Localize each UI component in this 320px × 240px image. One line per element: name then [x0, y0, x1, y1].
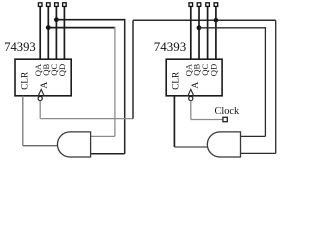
wire QD stem (U2): [215, 7, 217, 59]
wire gate U4 output to CLR (U2): [174, 146, 208, 148]
wire CLR drop (U1): [22, 96, 24, 146]
wire A input to Clock terminal (U2): [191, 119, 223, 121]
inversion bubble A input (U1): [38, 96, 42, 100]
wire QC to gate U3 horizontal: [56, 19, 124, 21]
wire QC stem (U2): [207, 7, 209, 59]
clock wedge A input (U2): [188, 89, 194, 95]
wire QB (U2) to gate U4 horizontal: [199, 27, 265, 29]
wire QA stem (U2): [190, 7, 192, 59]
wire QB to gate U3 top input stub: [91, 135, 115, 137]
junction dot QB net (U1): [46, 25, 51, 30]
wire QB to gate U3 horizontal: [48, 27, 115, 29]
svg-text:A: A: [39, 82, 50, 89]
wire gate U3 output to CLR (U1): [23, 145, 58, 147]
IC U1 74393 box: [15, 59, 71, 96]
junction dot QD net (U2): [214, 18, 219, 23]
svg-text:Clock: Clock: [215, 106, 240, 117]
terminal square QA (U2): [189, 3, 193, 7]
clock wedge A input (U1): [38, 89, 44, 95]
AND gate U3: [57, 132, 90, 157]
wire QB to gate U3 vertical: [114, 27, 116, 136]
Clock terminal square: [223, 117, 227, 121]
svg-text:A: A: [190, 82, 201, 89]
svg-text:QD: QD: [57, 64, 67, 76]
terminal square QC (U1): [55, 3, 59, 7]
inversion bubble A input (U2): [189, 96, 193, 100]
terminal square QB (U1): [47, 3, 51, 7]
terminal square QD (U1): [63, 3, 67, 7]
wire QC stem (U1): [55, 7, 57, 59]
wire QD net gate U4 bottom input stub: [241, 152, 276, 154]
svg-text:74393: 74393: [4, 40, 35, 54]
wire A input drop (U2): [190, 101, 192, 120]
wire CLR drop (U2): [173, 96, 175, 147]
wire QD stem (U1): [63, 7, 65, 59]
wire A input horizontal (U1): [40, 118, 133, 120]
IC U2 74393 box: [166, 59, 222, 96]
wire QD (U2) to A (U1) vertical riser: [132, 20, 134, 118]
terminal square QB (U2): [197, 3, 201, 7]
AND gate U4: [207, 132, 240, 157]
svg-text:CLR: CLR: [20, 71, 30, 90]
wire QB stem (U2): [198, 7, 200, 59]
wire QB (U2) to gate U4 vertical: [264, 27, 266, 136]
wire QB stem (U1): [47, 7, 49, 59]
terminal square QA (U1): [38, 3, 42, 7]
wire QC to gate U3 vertical: [124, 19, 126, 154]
wire A input drop (U1): [39, 101, 41, 119]
wire QD (U2) net horizontal bus: [133, 19, 276, 21]
wire QA stem (U1): [39, 7, 41, 59]
wire QD net right drop to gate U4: [275, 20, 277, 153]
svg-text:QD: QD: [209, 64, 219, 76]
svg-text:CLR: CLR: [171, 71, 181, 90]
terminal square QC (U2): [206, 3, 210, 7]
junction dot QB net (U2): [197, 25, 202, 30]
junction dot QC net (U1): [54, 17, 59, 22]
wire QB (U2) gate U4 top input stub: [241, 135, 266, 137]
svg-text:74393: 74393: [154, 39, 187, 54]
wire QC to gate U3 bottom input stub: [91, 153, 125, 155]
terminal square QD (U2): [214, 3, 218, 7]
